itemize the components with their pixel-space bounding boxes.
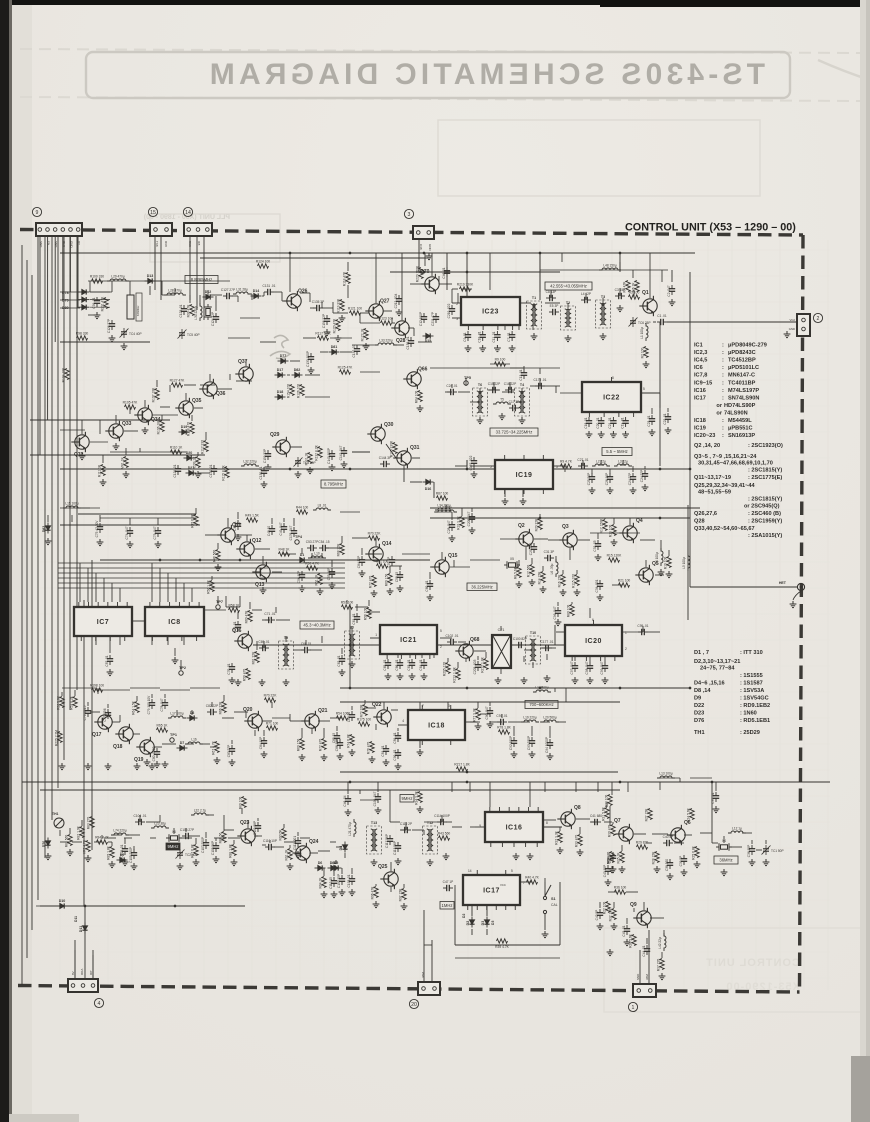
ground <box>109 861 116 868</box>
wire <box>430 507 700 509</box>
frequency label 8.8265MHz <box>185 276 218 284</box>
inductor L5 100μ <box>688 553 690 571</box>
svg-text:4: 4 <box>98 1001 101 1007</box>
wire <box>649 253 651 298</box>
resistor R126 100 <box>300 385 304 396</box>
svg-text:C10 .01: C10 .01 <box>478 331 482 342</box>
svg-text:30,31,45~47,66,68,69,10,1,70: 30,31,45~47,66,68,69,10,1,70 <box>698 461 773 467</box>
svg-text:C89 .01: C89 .01 <box>393 732 397 743</box>
resistor R43 560 <box>439 836 450 840</box>
ground <box>540 586 547 593</box>
svg-text:R35 1K: R35 1K <box>617 852 621 864</box>
wire <box>271 518 273 524</box>
diode D18 <box>275 394 286 399</box>
resistor R58 1K <box>229 608 240 612</box>
wire from connector 9 <box>62 236 64 300</box>
ground <box>85 855 92 862</box>
dashed border right <box>800 235 804 992</box>
svg-text:Q17: Q17 <box>92 732 102 738</box>
resistor R109 1K <box>196 457 200 468</box>
wire <box>251 294 253 300</box>
svg-text:14: 14 <box>468 869 472 873</box>
ghost show-through box bottom right <box>604 928 862 1012</box>
capacitor C125 .01 <box>122 845 128 855</box>
wire <box>269 840 271 843</box>
svg-text:R4 47K: R4 47K <box>623 281 627 293</box>
svg-text:M54459L: M54459L <box>728 418 752 424</box>
ground <box>607 949 614 956</box>
capacitor C112 15 <box>331 877 337 887</box>
capacitor C72 .01 <box>235 621 241 631</box>
wire bus line <box>83 600 85 906</box>
svg-text:L4 12P: L4 12P <box>581 292 591 296</box>
inductor L14 100μ <box>533 690 551 692</box>
test point TP1 <box>170 738 174 742</box>
junction <box>199 559 202 562</box>
svg-text:R219 330K: R219 330K <box>457 282 474 286</box>
svg-text:C175 .01: C175 .01 <box>534 378 547 382</box>
wire <box>389 790 391 822</box>
svg-text:D76: D76 <box>694 718 704 724</box>
IC IC16 <box>485 807 543 847</box>
wire <box>180 660 182 670</box>
svg-text:C100 82P: C100 82P <box>513 637 527 641</box>
wire <box>409 654 411 658</box>
wire <box>475 826 485 828</box>
wire <box>301 548 303 554</box>
wire <box>452 507 462 509</box>
svg-text:μPD8243C: μPD8243C <box>728 350 756 356</box>
diode D8 <box>187 715 198 720</box>
svg-text:Q15: Q15 <box>448 553 458 559</box>
svg-text:R58 1K: R58 1K <box>229 603 241 607</box>
wire <box>622 631 643 633</box>
resistor R71 100 <box>377 564 388 568</box>
ground <box>123 471 130 478</box>
svg-text:L32 220μ: L32 220μ <box>243 460 257 464</box>
svg-text:CAL: CAL <box>551 903 558 907</box>
resistor R39 4.7K <box>497 939 508 943</box>
svg-text:TP4: TP4 <box>295 535 303 539</box>
transistor Q66 <box>403 369 421 389</box>
svg-text:L20 560μ: L20 560μ <box>543 716 557 720</box>
wire bus line <box>37 236 39 900</box>
resistor R26 5.6K <box>632 935 636 946</box>
wire <box>151 636 153 645</box>
ground <box>555 619 562 626</box>
diode D5 <box>331 865 342 870</box>
resistor R91 1K <box>288 849 292 860</box>
resistor R51 1K <box>318 574 322 585</box>
wire <box>30 454 205 456</box>
transistor Q9 <box>633 908 651 928</box>
wire feeder bus <box>58 562 345 564</box>
connector J14 <box>184 223 212 236</box>
trimmer capacitor TC5 40P <box>178 329 187 339</box>
resistor R72 470 <box>322 739 326 750</box>
capacitor C2 .047 <box>669 285 675 295</box>
svg-text:C210 .022: C210 .022 <box>447 303 451 318</box>
connector J3 <box>413 226 434 239</box>
svg-text:9: 9 <box>36 210 39 216</box>
ground <box>127 541 134 548</box>
ground <box>527 853 534 860</box>
ground <box>172 657 179 664</box>
resistor R86 56 <box>222 832 226 843</box>
svg-text:C90 .01: C90 .01 <box>393 749 397 760</box>
svg-text:: RD5.1EB1: : RD5.1EB1 <box>740 718 770 724</box>
svg-text:C115 56P: C115 56P <box>393 841 397 855</box>
wire <box>254 835 258 837</box>
svg-text:IC17: IC17 <box>694 395 706 401</box>
capacitor C99 .01 <box>94 297 100 307</box>
wire <box>616 833 620 835</box>
svg-text:M74LS197P: M74LS197P <box>728 388 759 394</box>
ground <box>299 585 306 592</box>
wire bus line <box>69 236 71 710</box>
wire <box>293 518 295 526</box>
show-through grid texture <box>40 240 830 990</box>
svg-text:C144 3P: C144 3P <box>379 456 391 460</box>
wire <box>340 351 352 353</box>
svg-text:: 2SC1959(Y): : 2SC1959(Y) <box>748 519 782 525</box>
ground <box>154 761 161 768</box>
svg-text:R90 5K: R90 5K <box>279 829 283 841</box>
wire <box>574 656 576 661</box>
resistor R34 3.3K <box>418 792 422 803</box>
wire <box>88 280 210 282</box>
transistor Q26 <box>283 291 301 311</box>
left border bar <box>0 0 9 1122</box>
resistor R46 560 <box>216 550 220 561</box>
wire <box>237 296 239 302</box>
svg-text:Q7: Q7 <box>614 818 621 824</box>
wire <box>310 852 318 854</box>
svg-text:μPD8049C-279: μPD8049C-279 <box>728 343 767 349</box>
svg-text:C112 15: C112 15 <box>329 877 333 889</box>
svg-text:8.795MHz: 8.795MHz <box>324 482 343 487</box>
capacitor C24 27P <box>642 470 648 480</box>
svg-text:Q3~5 , 7~9 ,15,16,21~24: Q3~5 , 7~9 ,15,16,21~24 <box>694 454 757 460</box>
resistor R36 100 <box>615 890 626 894</box>
frequency label 8.795MHz <box>321 480 346 488</box>
wire <box>290 720 305 722</box>
ground <box>193 859 200 866</box>
svg-text:R87 6.8K: R87 6.8K <box>191 843 195 858</box>
svg-text:C109 88P: C109 88P <box>253 821 257 835</box>
svg-text:C71 .01: C71 .01 <box>264 612 275 616</box>
svg-text::: : <box>722 373 724 379</box>
svg-text:R127 47K: R127 47K <box>170 378 185 382</box>
ground <box>542 931 549 938</box>
wire <box>125 448 127 455</box>
wire <box>272 717 290 719</box>
wire <box>386 444 396 458</box>
wire <box>539 253 541 300</box>
svg-text:C46 .04: C46 .04 <box>343 795 347 806</box>
svg-text:C193 .01: C193 .01 <box>347 874 351 887</box>
capacitor E5 3P <box>549 309 559 315</box>
svg-text:R69 150: R69 150 <box>385 574 389 587</box>
wire <box>349 604 351 688</box>
svg-text:R89 100: R89 100 <box>239 797 243 810</box>
svg-text:Q29: Q29 <box>270 432 280 438</box>
wire <box>390 565 402 567</box>
svg-text:C123 .01: C123 .01 <box>179 304 183 317</box>
resistor R119 33K <box>340 300 344 311</box>
wire <box>285 636 287 642</box>
wire top supply rail <box>60 252 695 254</box>
wire <box>154 746 162 748</box>
svg-text:C176 .047: C176 .047 <box>289 525 293 540</box>
svg-text:C12 100P: C12 100P <box>419 312 423 326</box>
wire <box>218 388 232 390</box>
transistor Q12 <box>236 539 254 559</box>
ground <box>479 345 486 352</box>
wire <box>318 720 330 722</box>
inductor L8 .01 <box>313 508 331 510</box>
trimmer capacitor TC1 50P <box>762 845 771 855</box>
wire <box>518 560 520 566</box>
wire <box>543 826 562 828</box>
capacitor C25 56P <box>589 473 595 483</box>
wire <box>412 829 424 831</box>
wire <box>543 819 556 821</box>
IC IC20 <box>565 620 622 661</box>
wire <box>532 325 534 330</box>
svg-text:TS-430S SCHEMATIC DIAGRAM: TS-430S SCHEMATIC DIAGRAM <box>206 58 765 91</box>
svg-text:R48 1K: R48 1K <box>279 547 291 551</box>
svg-text:24~75, 77~84: 24~75, 77~84 <box>700 666 735 672</box>
ground <box>793 591 801 600</box>
ground <box>502 498 509 505</box>
wire <box>97 688 99 694</box>
wire <box>653 321 656 323</box>
capacitor C176 .047 <box>291 527 297 537</box>
wire <box>640 539 655 541</box>
svg-text:Q20: Q20 <box>243 707 253 713</box>
wire <box>613 518 615 524</box>
wire <box>549 726 551 738</box>
capacitor C84 12P <box>359 556 365 566</box>
wire <box>523 366 525 370</box>
wire <box>290 360 300 362</box>
resistor R8 5.6K <box>517 567 521 578</box>
svg-text:R8 5.6K: R8 5.6K <box>514 566 518 579</box>
svg-text:D3: D3 <box>481 921 485 926</box>
wire <box>262 556 264 564</box>
wire <box>521 388 523 394</box>
capacitor C27 .01 <box>578 463 588 469</box>
capacitor C175 .01 <box>535 383 545 389</box>
capacitor C65 .01 <box>385 659 391 669</box>
wire <box>90 905 120 907</box>
wire <box>370 637 380 639</box>
wire <box>237 512 239 519</box>
inductor L15 100μ <box>63 506 81 508</box>
wire <box>162 294 175 296</box>
svg-text:R37 220: R37 220 <box>657 959 661 972</box>
wire <box>161 415 163 420</box>
svg-text:R33 470: R33 470 <box>575 835 579 848</box>
capacitor C60 .01 <box>427 580 433 590</box>
wire <box>174 288 176 295</box>
ground <box>475 723 482 730</box>
wire <box>582 460 584 466</box>
wire <box>322 644 340 646</box>
ground <box>586 431 593 438</box>
wire <box>60 419 75 421</box>
svg-text:R107 10K: R107 10K <box>152 387 156 402</box>
wire <box>112 721 120 723</box>
wire <box>323 728 325 738</box>
wire <box>370 789 390 791</box>
svg-text:D83: D83 <box>42 526 46 533</box>
wire <box>523 656 525 662</box>
inductor L7 100μ <box>435 510 457 512</box>
wire <box>700 832 712 834</box>
wire <box>356 604 358 611</box>
capacitor C177 .01 <box>542 645 552 651</box>
svg-text:C102 .01: C102 .01 <box>446 634 459 638</box>
resistor R74 6.8K <box>350 735 354 746</box>
ground <box>401 903 408 910</box>
svg-text:Q16: Q16 <box>232 628 242 634</box>
ground <box>329 464 336 471</box>
ground <box>335 335 342 342</box>
wire <box>556 631 565 633</box>
wire <box>576 818 590 820</box>
svg-text:8: 8 <box>612 376 614 380</box>
svg-text:: 1N60: : 1N60 <box>740 711 757 717</box>
svg-text:36M: 36M <box>421 972 425 978</box>
svg-text:C133 100P: C133 100P <box>306 351 310 367</box>
wire <box>100 559 430 561</box>
capacitor C115 56P <box>395 842 401 852</box>
wire <box>352 781 370 783</box>
transformer T13 <box>367 826 382 854</box>
svg-text:C93 220P: C93 220P <box>527 736 531 750</box>
wire <box>240 317 260 319</box>
wire <box>447 702 449 710</box>
svg-text:R34 3.3K: R34 3.3K <box>415 790 419 805</box>
diode D20 <box>184 455 195 460</box>
svg-text:C127 27P: C127 27P <box>221 288 235 292</box>
diode D78 <box>79 289 90 294</box>
wire <box>272 571 282 573</box>
resistor R131 1K <box>308 453 312 464</box>
wire <box>326 547 340 549</box>
wire <box>397 728 399 731</box>
connector J15 <box>150 223 172 236</box>
svg-text:C69 .01: C69 .01 <box>258 640 269 644</box>
svg-text:or: or <box>716 403 722 409</box>
transistor Q32 <box>71 432 89 452</box>
wire <box>390 781 414 783</box>
svg-text:C41 680: C41 680 <box>590 814 602 818</box>
wire <box>418 341 432 343</box>
svg-text:IC22: IC22 <box>603 395 620 402</box>
transformer T1 <box>527 301 542 329</box>
wire <box>546 654 548 660</box>
svg-text:D9: D9 <box>120 853 125 857</box>
ghost show-through dashed line lower <box>20 97 860 101</box>
ground <box>215 564 222 571</box>
wire <box>224 829 234 831</box>
ground <box>487 721 494 728</box>
wire <box>509 382 511 390</box>
svg-text:TC6 25P: TC6 25P <box>638 321 651 325</box>
wire <box>95 636 97 645</box>
wire <box>151 694 153 698</box>
wire <box>451 289 453 303</box>
ground <box>345 809 352 816</box>
wire <box>477 656 479 660</box>
wire <box>403 466 405 482</box>
wire <box>72 841 82 843</box>
wire <box>383 310 392 312</box>
wire <box>446 821 452 823</box>
wire <box>441 815 443 822</box>
svg-text:C137 .01: C137 .01 <box>352 344 356 357</box>
svg-text:36M: 36M <box>645 974 649 980</box>
wire <box>199 295 201 305</box>
top border bar <box>0 0 870 5</box>
wire <box>301 292 310 294</box>
ground <box>122 859 129 866</box>
ground <box>235 679 242 686</box>
parts list transistor section <box>694 443 783 539</box>
svg-text:L34 150μ: L34 150μ <box>437 504 451 508</box>
wire <box>289 714 291 721</box>
wire <box>674 842 684 844</box>
svg-text:D2,3,10~13,17~21: D2,3,10~13,17~21 <box>694 659 740 665</box>
svg-text:R26 5.6K: R26 5.6K <box>629 933 633 948</box>
svg-text:R56 100: R56 100 <box>364 608 368 621</box>
ground <box>426 253 433 260</box>
svg-text:R39 4.7K: R39 4.7K <box>495 945 510 949</box>
svg-text:C39 5P: C39 5P <box>679 856 683 867</box>
ground <box>694 861 701 868</box>
transistor Q15 <box>431 557 449 577</box>
wire <box>626 891 634 893</box>
svg-text:X5: X5 <box>510 557 514 561</box>
svg-text:C17 3P: C17 3P <box>509 400 520 404</box>
wire from connector 3 <box>418 236 420 272</box>
ground <box>547 753 554 760</box>
wire <box>410 481 422 483</box>
svg-text:C45 .01: C45 .01 <box>622 925 626 936</box>
wire <box>756 849 762 851</box>
wire <box>454 885 456 888</box>
svg-text:C97 .047: C97 .047 <box>570 661 574 674</box>
wire from connector 9 <box>54 236 56 342</box>
wire <box>684 834 692 836</box>
svg-text:L2 22μ: L2 22μ <box>596 460 606 464</box>
connector number 1 <box>628 1002 637 1011</box>
diode D12 <box>203 294 214 299</box>
resistor R220 100K <box>419 268 423 279</box>
resistor R89 100 <box>242 797 246 808</box>
diode D77 <box>278 358 289 363</box>
wire <box>124 838 126 844</box>
transistor Q6 <box>667 825 685 845</box>
wire <box>457 662 459 668</box>
svg-text:D80: D80 <box>62 306 69 310</box>
svg-text:C83 27P: C83 27P <box>227 745 231 757</box>
resistor R80 100 <box>570 605 574 616</box>
capacitor C156 22P <box>324 315 330 325</box>
